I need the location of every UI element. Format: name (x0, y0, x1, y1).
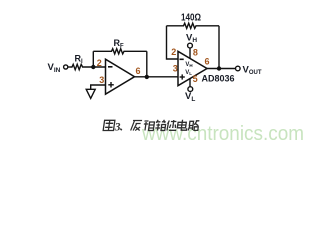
node C junction dot (217, 66, 221, 70)
ground (86, 89, 95, 98)
svg-text:3: 3 (114, 122, 121, 134)
svg-text:8: 8 (193, 48, 198, 58)
resistor 140ohm (167, 23, 220, 28)
svg-text:VH: VH (186, 32, 197, 44)
input terminal circle (64, 65, 68, 69)
wire input to resistor (68, 66, 71, 68)
相 (143, 121, 155, 131)
wire resistor to node (84, 66, 106, 68)
wire feedback left leg (92, 51, 94, 67)
位 (167, 120, 178, 131)
pin 5 terminal circle (188, 87, 193, 92)
pin 8 stub wire (189, 48, 191, 59)
resistor RI (71, 64, 85, 69)
svg-text:6: 6 (205, 57, 210, 67)
svg-text:140Ω: 140Ω (181, 12, 201, 23)
svg-text:VOUT: VOUT (243, 64, 262, 76)
wire pin 3 to ground (91, 85, 106, 89)
wire feedback right leg (146, 51, 148, 77)
路 (188, 121, 199, 131)
plus sign U1 (108, 84, 114, 86)
wire U2 output (207, 68, 236, 70)
svg-text:3: 3 (173, 63, 178, 73)
pin 8 terminal circle (188, 43, 193, 48)
op-amp U1 triangle (106, 59, 135, 94)
箝 (155, 120, 166, 131)
pin 5 stub wire (189, 79, 191, 87)
wire U1 output to U2 pin3 (135, 76, 179, 78)
svg-text:VL: VL (185, 91, 195, 103)
output terminal circle (236, 66, 241, 71)
图 (103, 120, 115, 130)
wire 140ohm left leg (167, 26, 179, 59)
svg-text:2: 2 (171, 47, 176, 57)
node B junction dot (145, 75, 149, 79)
svg-text:2: 2 (97, 58, 102, 68)
svg-text:VH: VH (185, 62, 192, 68)
svg-text:5: 5 (193, 74, 198, 84)
minus sign U1 (108, 66, 113, 68)
wire 140ohm right leg (218, 26, 220, 69)
svg-text:VL: VL (185, 70, 192, 76)
svg-text:3: 3 (99, 75, 104, 85)
node A junction dot (91, 65, 95, 69)
反 (131, 121, 142, 131)
caption 图3、反相箝位电路 (103, 120, 115, 130)
svg-text:VIN: VIN (48, 62, 61, 74)
svg-text:6: 6 (136, 66, 141, 76)
plus sign U2 (180, 76, 185, 78)
minus sign U2 (180, 58, 184, 60)
resistor RF (93, 49, 147, 54)
电 (177, 120, 188, 130)
svg-text:RF: RF (114, 38, 125, 50)
svg-text:RI: RI (75, 54, 84, 66)
op-amp U2 triangle (178, 51, 207, 85)
svg-text:AD8036: AD8036 (202, 74, 235, 84)
